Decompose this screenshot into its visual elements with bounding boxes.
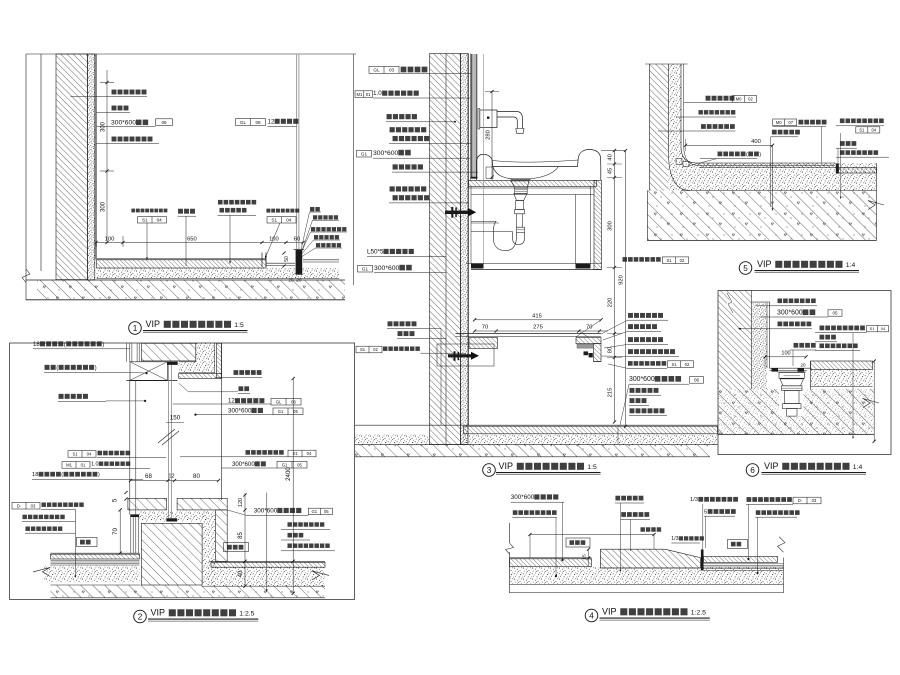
d6 drain trap hexagon [782,386,803,391]
d2 glass base clamp dark [166,518,177,521]
d1 bottom dimension line 100/650/100/60 [96,242,303,244]
d3 label stainless steel M1 [355,91,373,98]
d3 mirror glass panel [471,54,477,178]
svg-text:300*600: 300*600 [374,265,400,272]
svg-text:70: 70 [112,528,119,535]
svg-text:G1: G1 [312,509,318,514]
d2 label plywood cushion [22,515,26,519]
svg-text:VIP: VIP [764,461,779,471]
svg-text:100: 100 [781,350,790,356]
svg-text:80: 80 [193,473,200,480]
d4 stainless strip dark [701,550,704,571]
svg-text:GL: GL [240,120,247,125]
d2 right bathroom floor tile [209,560,325,562]
svg-text:68: 68 [145,473,152,480]
d2 label cement bonding right [287,522,291,526]
d1 interior floor tile surface [97,258,266,260]
d2 dim row 68/12/80 [131,480,219,482]
d1 floor structural slab hatch [37,280,345,299]
svg-text:05: 05 [297,462,302,467]
svg-text:VIP: VIP [151,608,166,618]
svg-text:1:5: 1:5 [587,464,597,471]
d4 common stipple bed [510,567,784,585]
svg-text:06: 06 [255,120,261,125]
d2 dims 120/85/40 right of step [244,493,246,586]
d1 wall tile face lines [95,54,97,260]
svg-text:12: 12 [168,474,174,480]
d6 right dim line [873,361,875,441]
d6 label cement mortar [778,299,783,304]
d3 faucet deck plug [486,167,493,179]
d5 label cement mortar [698,110,702,114]
svg-text:45: 45 [608,168,614,174]
d1 vertical dim line 300/300 [106,70,108,243]
svg-text:): ) [102,341,104,348]
svg-text:03: 03 [389,68,395,73]
svg-text:02: 02 [680,258,685,263]
svg-text:5: 5 [743,264,748,273]
d5 top boundary [645,63,688,65]
d3 basin sink profile [477,150,601,181]
d1 wall mortar stipple strip [88,54,95,280]
d1 left border lines [25,54,27,300]
d2 partition layer verticals top [125,343,127,362]
d6 right raised floor stone hatch [811,361,873,370]
d3 bench right stone edge hatch [576,338,601,344]
d3 floating stone label near detail5 [623,257,628,262]
svg-text:1/3: 1/3 [690,497,698,503]
svg-text:06: 06 [291,399,296,404]
d6 label cement bonding + structure [820,344,825,349]
d5 label mosaic M0-07 right [773,119,797,126]
d2 label silicone right [239,386,244,391]
svg-text:300*600: 300*600 [228,408,252,415]
svg-text:70: 70 [482,325,488,331]
title circle 1 [129,322,142,335]
d2 curb cap stone hatch left part [128,498,167,510]
svg-text:300*600: 300*600 [373,150,399,157]
d3 bench gray support bar [577,344,594,348]
svg-text:18: 18 [33,341,40,348]
d2 label stainless M1 left [62,462,90,469]
svg-text:920: 920 [619,275,625,285]
d2 right stipple column [202,511,216,585]
d5 break arrow right [868,201,884,210]
svg-text:M1: M1 [356,92,362,97]
svg-text:VIP: VIP [146,319,161,329]
svg-text:415: 415 [532,313,542,319]
d2 label wood blocking [45,365,50,370]
d5 label mosaic side face [718,152,723,157]
svg-text:85: 85 [238,532,244,539]
svg-text:20: 20 [297,278,302,283]
d4 label threshold stone [621,512,626,517]
d3 faucet wall plate [478,109,480,130]
svg-text:04: 04 [286,217,292,222]
svg-text:(: ( [56,364,58,371]
svg-text:300*600: 300*600 [511,494,535,501]
svg-text:G1: G1 [361,151,368,156]
svg-text:VIP: VIP [602,607,617,617]
svg-text:01: 01 [366,92,371,97]
d6 wall structure hatch [718,291,752,390]
d2 tile band vertical strip [217,343,222,378]
d4 label cement mortar layer [615,496,620,501]
d5 stone band right portion [839,168,877,173]
d2 label structural slab right [287,543,291,547]
d3 label 15mm plywood fireproof [390,127,395,132]
svg-text:2400: 2400 [285,467,292,481]
svg-text:(: ( [64,341,66,348]
title circle 3 [483,464,496,477]
d3 bench left support block hatch [469,338,498,349]
d6 label floor drain [794,343,799,348]
d2 glass partition panel [168,365,170,519]
d1 bottom label waterproof [178,209,183,214]
d5 wall mortar stipple and cove [669,64,877,191]
d3 shelf line [471,222,499,224]
d1 bottom label polished stone S1-04 [266,209,270,213]
d3 bench dim 415 and 70/275/70 [475,319,601,321]
d3 counter stone hatch band [469,181,597,187]
svg-text:(: ( [61,472,63,478]
d3 led light strips [584,351,589,355]
d6 right leader line [852,333,854,437]
d3 under counter boards [469,187,595,189]
d6 drain body [778,371,807,373]
d5 floor screed stipple [681,168,877,191]
d2 leader vline to floor layers [75,509,77,576]
d2 curb cap stone hatch right part [177,498,227,510]
d3 bottle trap ribs [515,188,528,193]
d6 label original wall structure [778,322,783,327]
svg-text:04: 04 [881,326,886,331]
d3 dim 920 line [625,151,627,427]
d1 floor step joint [261,253,263,268]
svg-text:20: 20 [800,363,806,368]
d6 drain tail pipe [785,391,800,404]
d2 left panel verticals [130,517,132,553]
svg-text:S1: S1 [72,452,78,457]
d3 faucet spout [497,112,523,129]
d2 under-cap stipple [139,511,208,522]
d1 right border line [353,54,355,285]
svg-text:300*600: 300*600 [232,461,255,468]
svg-text:): ) [759,152,761,158]
d2 label composite wood floor D-03 [12,502,40,509]
d5 label mosaic M0-02 [706,96,711,101]
d3 right label leaders [601,320,628,334]
title circle 2 [134,610,147,623]
svg-text:280: 280 [485,130,491,140]
svg-text:1:4: 1:4 [853,464,863,471]
d5 label cement bonding right [840,150,845,155]
svg-text:215: 215 [608,388,614,398]
svg-text:1:2.5: 1:2.5 [239,611,254,618]
d6 break arrow in slab [863,399,879,408]
svg-text:S1: S1 [666,258,672,263]
svg-text:300*600: 300*600 [111,120,136,127]
svg-text:G1: G1 [282,462,288,467]
d1 tile right of upstand [303,259,339,261]
svg-text:300*600: 300*600 [254,508,278,515]
d3 label cement mortar bench [388,321,393,326]
svg-text:120: 120 [238,498,244,507]
d2 left floor stipple [44,566,140,582]
title circle 4 [585,609,598,622]
d3 anchor bolt upper [445,211,468,214]
svg-text:S1: S1 [360,347,366,352]
d3 drain flange under sink [511,178,531,181]
d5 label original wall structure [701,124,706,129]
d1 bottom label stone tile S1-04 [131,209,135,213]
svg-text:18: 18 [32,472,38,478]
d3 floor tile band [355,424,718,426]
svg-text:S1: S1 [859,127,865,132]
d2 curb masonry hatch block [141,523,202,585]
svg-text:1.0: 1.0 [91,461,99,467]
d6 wall mortar stipple [752,302,768,389]
svg-text:): ) [95,364,97,371]
d1 leaders to upstand [301,212,310,250]
svg-text:300*600: 300*600 [629,376,655,383]
d1 label waterproof layer [96,112,130,114]
d2 label polished stone S1-04 left [68,451,96,458]
d2 label fireproof board face [59,394,64,399]
svg-text:60: 60 [294,236,300,242]
d5 label original structure right [772,130,777,135]
svg-text:150: 150 [170,415,181,422]
d3 label stone S1-02 left [356,346,382,353]
d6 slab hatch with stipple [718,389,874,435]
d5 label washed stone S1-04 [840,119,845,124]
svg-text:3: 3 [487,466,492,475]
d3 right labels column [628,313,633,318]
d2 wood blocking X box [130,362,167,381]
d1 label 12mm tempered glass GL-06 [236,119,266,126]
d1 stone upstand dark bar [296,250,303,275]
d4 label composite wood floor D-03 right [747,497,752,502]
d6 label waterproof [820,335,825,340]
d6 wall tile face [769,302,771,368]
d2 label cement bonding left [25,526,29,530]
d1 bottom label cement mortar + structure [218,200,223,205]
d3 label glass wall GL03 [369,66,399,73]
d5 mosaic side piece at corner [676,159,682,165]
svg-text:300: 300 [101,201,107,212]
svg-text:S1: S1 [292,451,298,456]
svg-text:5: 5 [704,509,707,515]
svg-text:M1: M1 [66,463,72,468]
svg-text:04: 04 [871,127,876,132]
d6 drain pocket white [777,372,807,386]
d1 break squiggle on left border [22,269,30,283]
svg-text:275: 275 [533,325,543,331]
svg-text:4: 4 [589,612,594,621]
d3 wall tile face line [468,54,470,426]
svg-text:15: 15 [582,554,588,560]
d4 label cement waterproof left [513,510,518,515]
svg-text:05: 05 [832,311,838,316]
title circle 6 [746,464,759,477]
d5 dark joint waterproof tick [836,163,839,173]
svg-text:1: 1 [133,324,138,333]
d4 room box label [728,540,748,549]
d3 dim 280 faucet height [491,92,493,181]
d3 faucet body [480,110,497,128]
svg-text:S1: S1 [271,217,277,222]
d3 counter right end panel hatch [594,181,602,270]
svg-text:1:5: 1:5 [234,322,244,329]
svg-text:G1: G1 [278,409,284,414]
d3 right dim chain 40/45/300/220/80/215 [601,150,626,152]
d2 left wood floor surface [51,552,140,554]
d6 right floor stipple [811,370,873,387]
d4 bathroom box label [566,538,590,547]
d2 glass clamp dark [167,362,177,365]
svg-text:04: 04 [307,451,312,456]
d2 tile band ceiling return [179,373,222,378]
d5 dim 400 [686,144,773,146]
d1 right stack small labels silicone/rubber/stone [310,207,314,211]
d1 floor mortar stipple layer [97,268,339,279]
svg-text:20: 20 [289,278,294,283]
svg-text:50: 50 [284,256,290,262]
svg-text:GL: GL [373,68,380,73]
svg-text:300: 300 [608,221,614,231]
svg-text:40: 40 [238,570,244,577]
d3 wall structure hatch column [430,54,461,445]
d4 dim field size line [530,534,654,536]
svg-text:04: 04 [157,217,163,222]
d2 right floor stipple [207,567,325,586]
svg-text:1/3: 1/3 [671,536,678,542]
svg-text:G1: G1 [362,266,369,271]
d6 label washed stone S1-04 [820,326,825,331]
d4 dim 15 at stone [588,549,590,567]
svg-text:M0: M0 [776,120,782,125]
d2 ceiling structure hatch block [142,343,196,361]
title circle 5 [739,262,752,275]
svg-text:D-: D- [798,498,803,503]
svg-text:L50*5: L50*5 [367,249,384,256]
d5 structural slab hatch [646,191,648,241]
d2 dim 70 and 5 [119,510,121,553]
d2 label rubber pad right [234,370,239,375]
d3 floor mortar stipple [355,434,429,445]
d3 label basin [393,164,398,169]
d1 label cement mortar bonding layer [96,143,159,145]
d2 bathroom label box [224,543,249,552]
d4 right border and break [783,558,785,594]
d1 top boundary [26,53,356,55]
d1 glass partition 12mm [296,55,298,250]
svg-text:650: 650 [187,236,197,242]
d4 left bathroom floor tile band [510,557,592,559]
d2 wall tile face line down [221,343,223,500]
d2 room label box [77,538,98,547]
svg-text:01: 01 [81,463,86,468]
d3 cabinet bottom [466,263,602,265]
svg-text:S1: S1 [671,362,677,367]
d3 label 15mm plywood lower [390,186,395,191]
d1 label original wall structure [71,96,148,98]
svg-text:1:4: 1:4 [846,262,856,269]
svg-text:12: 12 [268,118,275,125]
svg-text:S1: S1 [870,326,876,331]
svg-text:M0: M0 [736,97,742,102]
d3 wall mortar stipple column [461,54,469,445]
svg-text:2: 2 [138,613,143,622]
svg-text:): ) [98,472,100,478]
d3 cabinet verticals [470,187,472,264]
d2 frame box [10,343,355,600]
d3 label 300*600 tile lower G1 [358,265,373,272]
svg-text:1:2.5: 1:2.5 [691,610,706,617]
d4 threshold stone hatch polygon [601,549,701,568]
d4 right wood floor [704,557,778,563]
svg-text:05: 05 [293,409,298,414]
d5 wall structure hatch [650,64,669,191]
d3 label 300*600 tile G1 [357,150,372,157]
svg-text:(: ( [746,152,748,158]
d3 p-trap u-bend and outlet to wall [493,232,524,251]
d2 leader vline right labels [266,493,268,591]
svg-text:04: 04 [87,452,92,457]
d3 anchor bolt lower with detail box [437,344,494,366]
d2 right hatch column step [216,510,228,562]
d5 cove finish curve lines [681,64,835,163]
d2 partition face verticals below [129,381,131,515]
svg-text:06: 06 [161,120,167,125]
d4 left border with break [509,523,511,543]
d3 label counter faucet [387,114,392,119]
svg-text:VIP: VIP [757,259,772,269]
d5 mosaic floor band [699,163,835,167]
d4 label plywood fireproof right [756,510,761,515]
d3 floor structural slab hatch band [355,445,710,457]
svg-text:03: 03 [31,503,36,508]
svg-text:06: 06 [694,378,700,383]
svg-text:80: 80 [608,347,614,353]
d3 bench top surfaces [456,332,602,334]
svg-text:03: 03 [812,498,817,503]
svg-text:05: 05 [324,509,329,514]
d5 label waterproof right [840,141,845,146]
svg-text:02: 02 [685,362,690,367]
d2 glass break symbol [158,429,175,443]
svg-text:VIP: VIP [499,461,514,471]
svg-text:1.0: 1.0 [373,90,382,97]
svg-text:400: 400 [751,139,761,145]
svg-text:02: 02 [748,97,753,102]
d6 wall break mark [727,293,733,313]
svg-text:300*600: 300*600 [777,310,803,317]
d6 floor tile lines left of drain [770,367,811,369]
d1 original wall structure hatch [56,54,88,280]
svg-text:02: 02 [373,347,378,352]
d6 frame box [718,291,891,455]
d1 lower tile right of step [266,262,295,264]
d2 label polished stone right S1-04 [246,450,251,455]
d2 right break arrow [312,571,329,580]
d2 label waterproof right [288,533,293,538]
svg-text:S1: S1 [142,217,148,222]
svg-text:220: 220 [608,298,614,308]
d5 dim leader to structure [772,145,774,209]
svg-text:07: 07 [788,120,793,125]
svg-text:GL: GL [276,399,282,404]
